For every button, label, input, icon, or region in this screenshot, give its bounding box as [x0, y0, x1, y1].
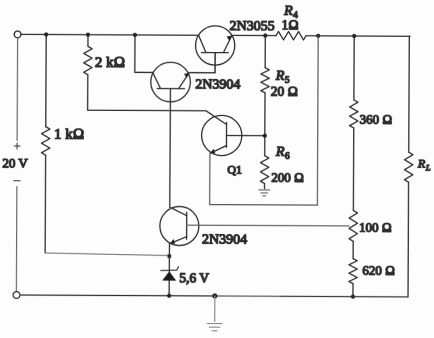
svg-text:20 V: 20 V [2, 155, 28, 170]
source plus sign [14, 143, 20, 149]
svg-text:2N3904: 2N3904 [195, 77, 240, 92]
wire 360 to 100 [352, 128, 354, 210]
wire top rail [21, 34, 410, 36]
resistor 100 Ohm [349, 210, 358, 241]
transistor Q1 [202, 111, 242, 156]
wire driver collector to rail [135, 35, 153, 72]
transistor U2 2N3904 driver [151, 62, 191, 102]
svg-text:5,6 V: 5,6 V [179, 270, 209, 285]
zener diode 5.6V cathode bar [161, 267, 179, 271]
svg-text:2 kΩ: 2 kΩ [95, 55, 125, 71]
resistor 1 kOhm [41, 127, 50, 156]
wire 1k branch [45, 35, 46, 253]
terminal input bottom-left [13, 292, 20, 299]
wire right edge bottom [407, 182, 410, 297]
wire R5 to node [264, 93, 266, 156]
svg-text:1Ω: 1Ω [282, 17, 299, 32]
svg-text:200 Ω: 200 Ω [271, 170, 304, 185]
node dot 2k [86, 33, 90, 37]
svg-text:R: R [275, 145, 285, 160]
svg-text:L: L [425, 162, 431, 172]
svg-text:360 Ω: 360 Ω [360, 112, 393, 127]
resistor R5 20 Ohm [261, 68, 270, 93]
svg-text:100 Ω: 100 Ω [359, 220, 392, 235]
wire R5 top [264, 36, 266, 68]
svg-text:R: R [417, 156, 426, 170]
resistor R4 1 Ohm [276, 31, 306, 40]
transistor U1 2N3055 [195, 26, 234, 73]
transistor Q3 2N3904 [160, 206, 199, 245]
wire Q1 emitter down [209, 153, 211, 204]
resistor 620 Ohm [349, 259, 358, 284]
wire right edge top [409, 36, 410, 152]
wire 1k to Q3 emitter [45, 253, 169, 256]
terminal input top-left [14, 31, 21, 38]
node dot R5 top [263, 34, 267, 38]
ground stub [214, 296, 216, 321]
node dot R5/R6 [263, 134, 267, 138]
source minus sign [14, 180, 20, 182]
node dot ground stub [212, 293, 217, 298]
node dot 1k [44, 32, 48, 36]
wire Q1 base to R5/R6 node [227, 135, 265, 137]
node dot 360 top [352, 34, 356, 38]
wire R6 to ground [264, 184, 266, 189]
resistor RL [404, 152, 413, 182]
source 20V negative lead [15, 187, 18, 292]
svg-text:Q1: Q1 [227, 162, 242, 176]
svg-text:R: R [275, 69, 285, 84]
wire driver base / Q3 collector spine [169, 89, 172, 207]
resistor R6 200 Ohm [260, 156, 269, 184]
source 20V positive lead [16, 38, 19, 141]
node dot divider bottom [351, 295, 355, 299]
ground bottom center [207, 324, 221, 331]
resistor 360 Ohm [350, 100, 359, 128]
svg-text:6: 6 [285, 152, 290, 162]
wire limiter up to output rail [316, 36, 319, 205]
wire Q3 base to divider [187, 224, 349, 227]
junction square emitter/zener [168, 254, 172, 258]
node dot limiter return [316, 34, 320, 38]
svg-text:2N3055: 2N3055 [230, 19, 275, 34]
wire bottom rail [20, 294, 215, 297]
svg-text:620 Ω: 620 Ω [362, 262, 395, 277]
wire Q3 emitter to zener [168, 244, 170, 296]
wire driver emitter to 3055 base [189, 52, 215, 72]
svg-text:20 Ω: 20 Ω [271, 84, 298, 99]
svg-text:2N3904: 2N3904 [202, 232, 247, 247]
resistor 2 kOhm [84, 46, 93, 74]
ground below R6 [259, 190, 270, 196]
node dot driver collector [133, 33, 137, 37]
wire 100 to 620 [352, 241, 354, 258]
wire limiter bottom run [210, 204, 318, 207]
zener diode 5.6V triangle [162, 271, 176, 280]
node dot zener bottom [167, 294, 171, 298]
wire 2k branch [88, 35, 207, 111]
svg-text:1 kΩ: 1 kΩ [54, 126, 84, 142]
wire 620 to rail [352, 284, 354, 297]
wire 360 top [353, 36, 355, 100]
